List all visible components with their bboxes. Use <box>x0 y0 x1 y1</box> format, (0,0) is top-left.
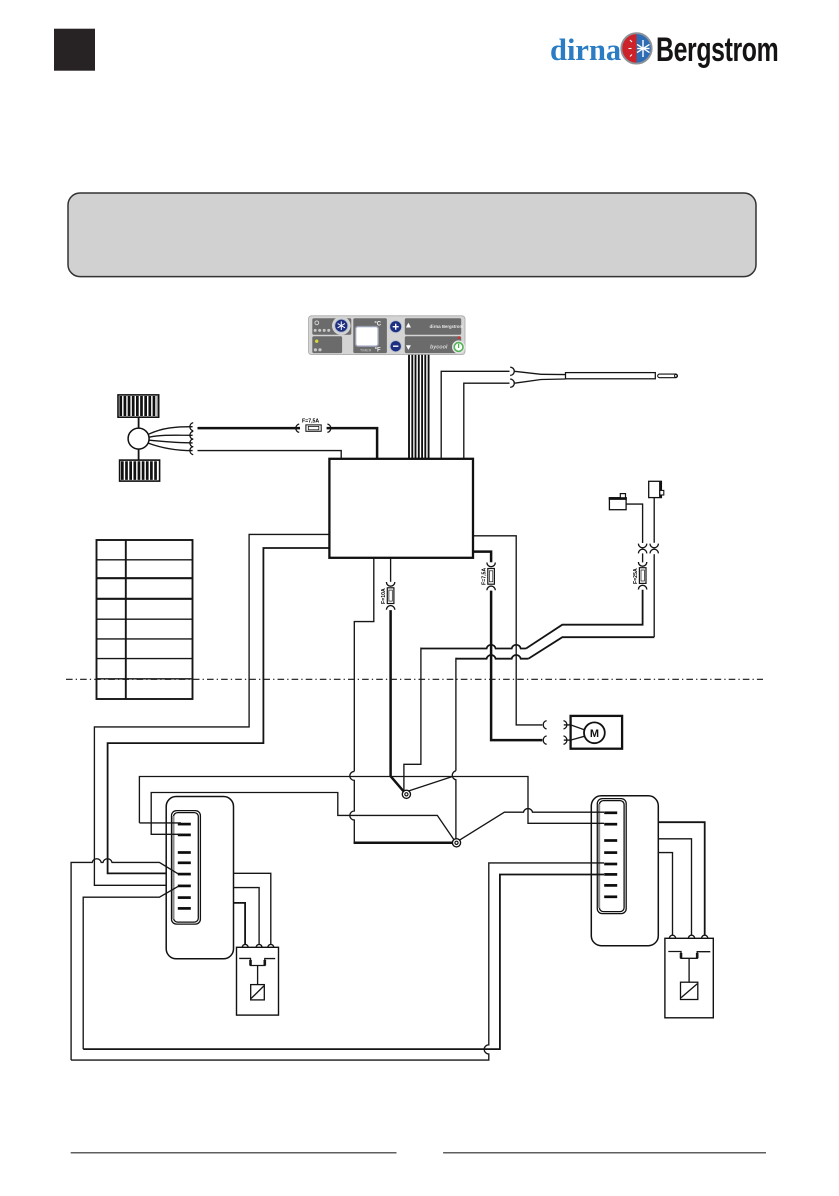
panel snowflake button <box>332 316 351 335</box>
panel red led <box>458 336 461 339</box>
panel gear icon <box>315 321 319 325</box>
svg-text:F=10A: F=10A <box>381 588 387 604</box>
header black square <box>54 29 95 71</box>
panel yellow led <box>315 340 318 343</box>
left relay switch symbol <box>239 958 275 984</box>
node1 diagonal to main horizontal <box>409 777 453 792</box>
wire fuse F1 to ECU top <box>327 428 378 459</box>
compressor spade connector <box>609 494 627 510</box>
panel middle section <box>353 318 387 353</box>
panel section top-left <box>312 318 351 334</box>
note box <box>68 193 756 277</box>
right strip tick marks <box>604 813 617 897</box>
left relay terminals <box>242 944 273 947</box>
connector curls pair A <box>638 544 646 548</box>
footer rule left <box>71 1152 397 1154</box>
right relay terminals <box>669 935 707 938</box>
wire curl B down <box>653 554 655 637</box>
temp sensor cable converge <box>515 371 542 374</box>
terminal table <box>97 540 193 699</box>
wire ECU to temp sensor upper <box>441 371 509 459</box>
right evaporator unit outer <box>591 796 658 946</box>
left relay coil <box>251 985 265 1000</box>
hop of right-tick1 wire over vertical x528 <box>460 809 604 840</box>
wire pressure horizontal with hops <box>528 637 654 659</box>
svg-text:dirna Bergstrom: dirna Bergstrom <box>430 324 464 329</box>
control panel <box>309 316 466 355</box>
left evaporator connector strip <box>172 811 201 925</box>
wire W4 bottom loop to left tick6 <box>83 886 178 1049</box>
svg-text:bycool: bycool <box>430 345 448 351</box>
panel down triangle <box>406 345 411 350</box>
blower stem wires <box>138 417 140 428</box>
svg-text:F=7,5A: F=7,5A <box>302 418 319 424</box>
left evaporator unit outer <box>166 797 233 959</box>
pressure switch connector <box>649 481 664 498</box>
left evap right side exits to relay <box>234 873 271 944</box>
right evap right side exits to relay <box>658 822 704 935</box>
wire spade connector to fuse F4 <box>626 504 643 543</box>
right relay switch symbol <box>668 952 710 983</box>
wire pressure vertical hop over main horizontal <box>452 771 456 839</box>
ECU right stub 1 to M motor upper <box>473 536 542 725</box>
blower motor: bottom resistor block <box>120 460 160 481</box>
fuse F4 25A <box>638 562 646 590</box>
wire blower to fuse F1 <box>198 427 301 430</box>
fuse F2 7,5A <box>487 563 495 591</box>
svg-text:TIMER: TIMER <box>360 348 372 352</box>
panel power button <box>452 340 465 353</box>
svg-text:F=25A: F=25A <box>633 568 639 584</box>
chassis dash-dot line <box>66 678 763 680</box>
fuse F1 7,5A <box>296 424 331 432</box>
wire fuse F4 down-left diagonal <box>526 590 643 649</box>
wire fuse F3 down to node1 <box>391 610 405 792</box>
svg-text:°C: °C <box>374 321 381 327</box>
ECU control box <box>329 459 473 558</box>
left strip tick marks <box>178 824 191 908</box>
main horizontal wire left-tick1 branch <box>139 777 604 824</box>
ECU right stub 2 to fuse F2 <box>473 552 491 563</box>
ECU left stub 2 to left evap tick5 <box>108 548 330 873</box>
junction node 1 <box>402 790 410 798</box>
panel section bottom-left <box>312 336 342 353</box>
panel mode dots <box>314 329 317 332</box>
M motor box <box>571 716 623 749</box>
temp sensor probe body <box>566 373 656 379</box>
blower motor body <box>128 428 149 449</box>
panel right bottom section <box>405 336 461 353</box>
ECU bottom stub 2 to fuse F3 <box>390 558 392 582</box>
svg-text:dirna: dirna <box>550 33 621 67</box>
panel bottom dots <box>314 348 317 351</box>
blower fan-out wires <box>149 427 193 435</box>
temp sensor connector curls <box>510 367 514 375</box>
wire W1 bottom loop to left tick5 <box>71 859 178 1060</box>
panel plus-minus capsule <box>388 316 404 354</box>
left relay box <box>237 947 279 1015</box>
M motor connector curls upper <box>543 721 546 729</box>
right relay coil <box>681 982 698 999</box>
ECU left stub 1 to left evap tick6 <box>94 534 329 885</box>
wire left-tick2 branch to node2 <box>151 793 453 840</box>
M motor connector curls lower <box>543 736 546 744</box>
temp sensor probe tip <box>658 374 678 378</box>
right relay box <box>665 938 713 1018</box>
wire fuse F2 to M motor lower <box>491 591 542 741</box>
svg-text:F=7,5A: F=7,5A <box>481 568 487 585</box>
bottom loop horizontal thin <box>71 863 604 1060</box>
ribbon cable panel to ECU <box>409 355 429 459</box>
logo emblem <box>621 33 651 63</box>
blower motor: top resistor block <box>118 395 159 417</box>
junction node 2 <box>452 839 460 847</box>
svg-text:Bergstrom: Bergstrom <box>656 31 778 69</box>
wire ECU to temp sensor lower <box>464 383 510 459</box>
panel display <box>356 327 379 347</box>
svg-text:°F: °F <box>375 348 381 354</box>
right evaporator connector strip <box>597 799 626 914</box>
svg-text:M: M <box>590 728 599 740</box>
fuse F3 10A <box>386 582 394 610</box>
blower connector curls <box>190 423 193 455</box>
panel up triangle <box>406 323 411 328</box>
wire blower line4 to ECU top <box>198 451 342 459</box>
ECU bottom stub 1 to node2 <box>354 558 374 772</box>
bottom loop horizontal thick <box>83 875 604 1050</box>
footer rule right <box>443 1152 766 1154</box>
panel right top section <box>405 318 461 334</box>
wire pressure switch down <box>653 498 655 543</box>
connector curls pair B <box>650 544 658 548</box>
wire compressor horizontal with hops <box>421 645 526 649</box>
